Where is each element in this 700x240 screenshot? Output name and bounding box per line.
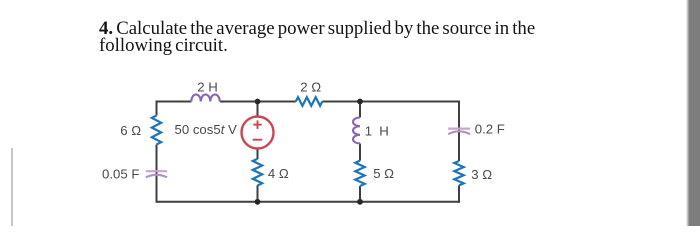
wire top middle segment (2H to 2ohm)	[220, 101, 296, 103]
svg-text:2 Ω: 2 Ω	[300, 80, 321, 95]
svg-text:50 cos5t V: 50 cos5t V	[175, 122, 238, 137]
wire right branch (through 0.2F)	[458, 101, 460, 162]
wire middle branch middle	[359, 144, 361, 161]
wire source branch bottom	[257, 185, 259, 202]
label 0.05F	[102, 167, 139, 182]
svg-text:0.2 F: 0.2 F	[475, 122, 505, 137]
wire left branch upper	[156, 101, 158, 116]
wire top-left segment	[157, 101, 192, 103]
svg-text:6 Ω: 6 Ω	[120, 123, 141, 138]
right gray sidebar	[689, 0, 700, 226]
resistor 4ohm	[253, 159, 262, 186]
resistor 6ohm	[152, 116, 161, 145]
faint left page edge line	[11, 148, 13, 226]
wire middle branch top	[359, 102, 361, 118]
resistor 5ohm	[355, 161, 364, 186]
label 2H	[197, 79, 218, 94]
wire top right segment	[322, 101, 459, 103]
label 50cos5t V	[175, 122, 238, 137]
svg-text:1H: 1H	[365, 123, 389, 138]
capacitor 0.2F	[448, 129, 470, 135]
label 2ohm	[300, 80, 321, 95]
label 0.2F	[475, 122, 505, 137]
svg-text:4 Ω: 4 Ω	[268, 166, 289, 181]
inductor 1H	[353, 118, 360, 144]
problem statement text	[99, 20, 559, 55]
wire source branch top	[257, 102, 259, 118]
label 1H	[365, 123, 389, 138]
svg-text:3 Ω: 3 Ω	[471, 167, 492, 182]
label 6ohm	[120, 123, 141, 138]
node top middle	[357, 99, 363, 105]
wire bottom rail	[157, 201, 460, 203]
capacitor 0.05F	[146, 171, 167, 177]
node bottom source	[255, 199, 261, 205]
wire source branch middle	[257, 148, 259, 159]
source 50cos5t V	[242, 117, 274, 149]
svg-text:5 Ω: 5 Ω	[373, 166, 394, 181]
wire right branch bottom	[458, 185, 460, 202]
label 4ohm	[268, 166, 289, 181]
wire left branch lower (through 0.05F)	[156, 145, 158, 203]
svg-text:2 H: 2 H	[197, 79, 218, 94]
wire middle branch bottom	[359, 186, 361, 202]
resistor 3ohm	[454, 161, 463, 185]
svg-text:0.05 F: 0.05 F	[102, 167, 139, 182]
label 3ohm	[471, 167, 492, 182]
label 5ohm	[373, 166, 394, 181]
node top source	[255, 99, 261, 105]
inductor 2H	[191, 95, 220, 102]
node bottom middle	[357, 199, 363, 205]
resistor 2ohm	[296, 97, 323, 106]
